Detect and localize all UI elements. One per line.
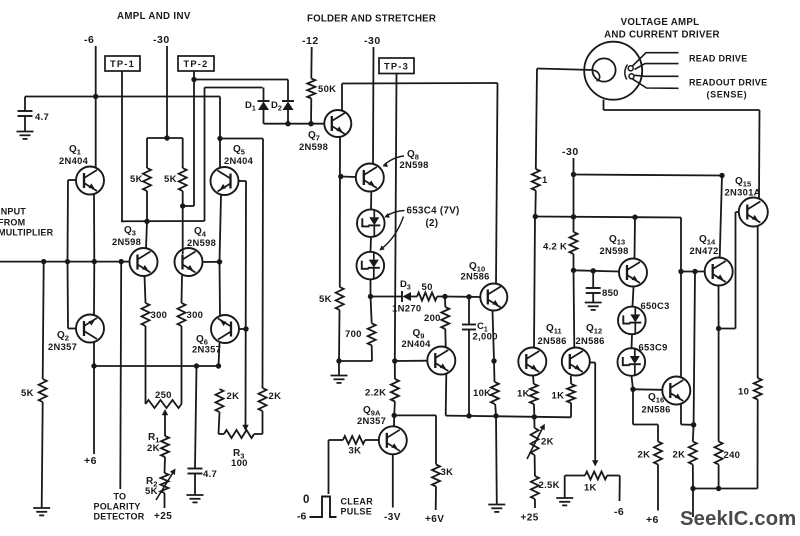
wire -30 stem (573, 158, 575, 175)
resistor 2K second x263 (259, 388, 267, 411)
wire 2K to +6 (657, 465, 659, 511)
svg-text:PULSE: PULSE (341, 507, 373, 517)
svg-text:1K: 1K (517, 389, 530, 400)
node 4.2K bottom / Q12 collector / Q13 base (571, 268, 576, 273)
capacitor C1 2000 (468, 297, 470, 324)
svg-text:2N472: 2N472 (690, 245, 719, 256)
svg-text:10: 10 (738, 387, 749, 398)
resistor 10K (491, 382, 499, 404)
svg-text:2N586: 2N586 (538, 335, 567, 346)
wire top bar joining 5K resistors (147, 137, 183, 139)
head lead line 3 (635, 75, 679, 76)
svg-text:4.7: 4.7 (35, 112, 49, 123)
node rail1 left junction (392, 413, 397, 418)
svg-text:653C4 (7V): 653C4 (7V) (407, 206, 460, 217)
head lead line 1 (632, 53, 679, 67)
resistor 2K right (692, 425, 695, 442)
wire R2 to +25 (164, 493, 166, 508)
wire Q5 emitter down (220, 195, 222, 262)
svg-text:+6: +6 (646, 514, 659, 526)
wire Q14 emitter down (718, 286, 720, 329)
wire Q7 emitter down to 5K (339, 137, 341, 287)
resistor 50 horizontal (417, 293, 437, 301)
wire -6 down to Q1 collector (95, 46, 97, 168)
wire Q15 emitter down to 10 (757, 226, 759, 378)
wire Q4 collector right to Q5 emitter node (203, 261, 220, 263)
transistor Q10 2N586 (480, 284, 507, 311)
svg-text:200: 200 (424, 313, 441, 324)
svg-text:2N598: 2N598 (187, 237, 216, 248)
resistor 4.2K (570, 232, 578, 254)
svg-text:2.2K: 2.2K (365, 388, 386, 399)
ground below 1K pot (556, 497, 573, 499)
svg-text:1K: 1K (584, 482, 597, 493)
wire rail y488.5 (693, 488, 758, 490)
wire between zeners (370, 237, 373, 252)
svg-text:100: 100 (231, 458, 248, 469)
node -6 junction on y96 rail (93, 94, 98, 99)
wire Q13 emitter down to 650C3 (633, 287, 634, 307)
transistor Q4 2N598 (175, 248, 203, 276)
head winding small circle 1 (628, 66, 633, 71)
node D2 junction (285, 121, 290, 126)
wire corner x220 down to Q5 collector (219, 97, 221, 169)
node Q14 emitter / Q15 base junction (716, 326, 721, 331)
wire Q7 collector up and right to Q10 collector (341, 84, 343, 111)
svg-text:300: 300 (151, 310, 168, 321)
wire Q11 collector up to y216 rail (534, 217, 535, 348)
potentiometer R3 100 horizontal (219, 433, 225, 435)
svg-text:700: 700 (345, 329, 362, 340)
wire zener chain bottom to node (370, 279, 372, 296)
svg-text:DETECTOR: DETECTOR (94, 512, 145, 522)
transistor Q12 2N586 (562, 348, 590, 376)
transistor Q14 2N472 (705, 258, 733, 286)
resistor 300 second (178, 303, 186, 326)
svg-text:5K: 5K (21, 388, 34, 399)
test point TP-2 box (178, 56, 214, 71)
resistor 10 (754, 378, 762, 400)
svg-text:250: 250 (155, 390, 172, 401)
svg-text:READ DRIVE: READ DRIVE (689, 54, 748, 64)
wire Q13 collector up (634, 217, 637, 258)
resistor 3K horizontal (343, 436, 365, 444)
svg-text:240: 240 (724, 450, 741, 461)
svg-text:2K: 2K (227, 391, 240, 402)
resistor 2.5K (531, 476, 539, 499)
node Q16 collector junction (678, 269, 683, 274)
wire zener bottom to Q16 base node (632, 376, 634, 390)
wire horizontal rail y=96.5 from input cap to corner x220 (25, 96, 220, 98)
node rail left junction (533, 214, 538, 219)
wire 240 to rail y488.5 (718, 465, 720, 489)
potentiometer 2K below rail2 (533, 417, 535, 428)
node x695 junction (692, 269, 697, 274)
svg-text:2N404: 2N404 (224, 155, 254, 166)
resistor 300 first (142, 303, 150, 326)
svg-text:3K: 3K (441, 467, 454, 478)
zener diode 653C4 second (357, 252, 385, 280)
wire Q3 emitter down to 300 ohm (145, 276, 146, 304)
svg-text:-6: -6 (614, 506, 624, 518)
wire y79.5 from TP-2 to D2 (194, 79, 288, 81)
head winding small circle 2 (629, 74, 634, 79)
node Q9 base / TP-3 / 2.2K junction (392, 358, 397, 363)
wire TP-1 stem down (121, 71, 123, 221)
wire TP-1 rail y221 (121, 220, 205, 222)
resistor 1 (532, 169, 540, 191)
wire node to C1 node (445, 296, 469, 298)
wire corner x204.5 up to y87.5 (204, 88, 206, 222)
svg-text:-3V: -3V (384, 512, 401, 523)
wire head bottom rail to right (604, 109, 760, 111)
wire Q6 emitter down to rail y366 (219, 343, 220, 366)
wire 700 bottom corner (371, 345, 373, 361)
svg-text:650C3: 650C3 (641, 300, 670, 311)
diode D1 (263, 110, 265, 124)
svg-text:TP-2: TP-2 (184, 59, 209, 69)
svg-text:READOUT DRIVE: READOUT DRIVE (689, 78, 767, 88)
wire Q5/Q6 base net down to R3 wiper arrow (245, 181, 248, 429)
node 5K1 bottom / Q3 collector (144, 219, 149, 224)
wire -12 stem (310, 47, 312, 79)
node input 5K tap (41, 259, 46, 264)
svg-text:FROM: FROM (0, 218, 25, 228)
wire 1K pot right to -6 (607, 475, 620, 477)
node Q2 emitter +6 junction (91, 363, 96, 368)
wire Q14 base rail y271.5 (681, 271, 705, 273)
resistor 5K second (182, 138, 184, 168)
transistor Q7 2N598 (324, 110, 351, 137)
node Q13 collector junction (632, 215, 637, 220)
svg-text:TP-1: TP-1 (110, 59, 135, 69)
wire Q1 base left (68, 179, 77, 181)
wire Q16 collector up to Q14 base rail (680, 272, 682, 378)
wire 5K bottom to ground node (338, 310, 341, 361)
svg-text:2N598: 2N598 (400, 159, 429, 170)
wire 50K down to Q7 base rail (310, 99, 312, 124)
svg-text:AND CURRENT DRIVER: AND CURRENT DRIVER (604, 30, 720, 41)
zener diode 650C3 (618, 307, 646, 335)
svg-text:2K: 2K (541, 437, 554, 448)
wire 200 bottom to Q9 collector (444, 329, 446, 347)
ground below 5K/700 (338, 361, 340, 376)
svg-text:2N301A: 2N301A (725, 187, 761, 198)
node 1K/2K pot junction (532, 414, 537, 419)
svg-text:50: 50 (422, 282, 433, 293)
svg-text:-30: -30 (562, 146, 579, 158)
wire 2.5K to +25 (534, 499, 536, 508)
node rail junction left (690, 486, 695, 491)
magnetic head core circle (592, 58, 615, 81)
svg-text:2N404: 2N404 (59, 155, 89, 166)
wire TP-2 to 5K2 bottom at y206 (183, 205, 194, 207)
svg-text:TO: TO (114, 492, 127, 502)
svg-text:(SENSE): (SENSE) (707, 90, 748, 100)
svg-text:2N598: 2N598 (600, 245, 629, 256)
svg-text:5K: 5K (130, 174, 143, 185)
wire 10K bottom to rail2 (494, 404, 497, 416)
svg-text:2N586: 2N586 (576, 335, 605, 346)
wire Q8 emitter down to zener (370, 192, 372, 210)
potentiometer R2 5K (161, 473, 169, 493)
wire Q2 collector up to bus (93, 262, 95, 315)
svg-text:4.2 K: 4.2 K (543, 242, 567, 253)
wire Q15 base left and down (736, 211, 739, 213)
node Q4 collector / Q5 emitter (217, 259, 222, 264)
resistor 3K vertical (432, 465, 440, 487)
magnetic head outer circle (584, 42, 642, 100)
transistor Q15 2N301A (739, 198, 768, 227)
wire -30 stem down to 5K top bar (166, 46, 168, 138)
node TP-2 tap to D2 wire (191, 77, 196, 82)
node Q16 base junction (630, 387, 635, 392)
transistor Q9 2N404 (427, 347, 455, 375)
zener diode 653C4 first (357, 209, 385, 237)
transistor Q13 2N598 (619, 259, 647, 287)
transistor Q5 2N404 (mirrored) (211, 167, 239, 195)
node junction y206 on 5K2 line (180, 203, 185, 208)
svg-text:5K: 5K (164, 174, 177, 185)
svg-text:3K: 3K (349, 446, 362, 457)
svg-text:2K: 2K (147, 443, 160, 454)
wire Q10 emitter down (493, 311, 495, 362)
transistor Q2 2N357 (76, 315, 104, 343)
node C1 tap (466, 294, 471, 299)
wire 10 down to rail (757, 400, 759, 489)
wire Q9 emitter down to rail2 (445, 374, 448, 415)
node Q1 emitter / Q2 collector tap (92, 259, 97, 264)
svg-text:2N357: 2N357 (48, 341, 77, 352)
transistor Q8 2N598 (356, 164, 384, 192)
wire y174.5 right to Q14 collector line (574, 175, 723, 176)
clear pulse waveform (310, 497, 337, 518)
node rail junction right (716, 486, 721, 491)
wire Q9A collector up to rail1 (393, 415, 395, 426)
wire 4.2K bottom to Q13 base node (573, 254, 575, 270)
wire 700 top to node (371, 297, 372, 324)
head lead line 2 (635, 64, 679, 70)
node polarity detector tap (119, 259, 124, 264)
wire corner down to Q14 collector (720, 176, 722, 258)
wire y87.5 right to D1 (205, 87, 263, 89)
wire Q8 base left (341, 176, 356, 179)
wire +6 stem (93, 366, 95, 454)
wire 1K corner to rail2 (570, 403, 572, 417)
wire Q12 emitter right and down to 1K pot wiper (590, 362, 595, 364)
svg-text:TP-3: TP-3 (384, 62, 409, 72)
svg-text:0: 0 (303, 494, 309, 506)
wire 3K to +6V (435, 487, 437, 511)
ground below 4.7 cap (187, 494, 204, 496)
svg-text:VOLTAGE AMPL: VOLTAGE AMPL (621, 17, 700, 28)
wire diode rail y123.7 to Q7 base (264, 123, 325, 125)
node 10K/ground junction (493, 413, 498, 418)
transistor Q9A 2N357 (379, 426, 407, 454)
wire Q10 emitter node to 10K (493, 361, 496, 382)
svg-text:-6: -6 (297, 511, 306, 523)
resistor 2K below Q6 (216, 389, 224, 412)
node Q6 base junction (243, 326, 248, 331)
node ground junction (336, 358, 341, 363)
resistor 200 (444, 297, 446, 308)
test point TP-1 box (105, 56, 140, 71)
wire Q16 base line (633, 388, 662, 391)
wire 50 to node (437, 296, 445, 298)
svg-text:+6: +6 (84, 455, 97, 467)
wire input bus y261.6 (0, 261, 130, 263)
wire -30 node down to 4.2K (573, 175, 575, 233)
svg-text:FOLDER AND STRETCHER: FOLDER AND STRETCHER (307, 14, 436, 25)
transistor Q16 2N586 (662, 377, 690, 405)
node Q16 emitter junction (691, 422, 696, 427)
svg-text:2N586: 2N586 (642, 404, 671, 415)
wire ground stem below rail2 (495, 416, 498, 505)
transistor Q1 2N404 (76, 167, 104, 195)
wire Q1 base down to bus (67, 180, 70, 262)
test point TP-3 box (379, 58, 414, 74)
svg-text:4.7: 4.7 (203, 469, 217, 480)
svg-text:5K: 5K (319, 294, 332, 305)
head lead line 4 (633, 79, 679, 88)
wire rail2 y416 (446, 416, 571, 418)
wire 1 bottom to rail y216.5 (534, 191, 537, 217)
svg-text:10K: 10K (473, 388, 491, 399)
svg-text:INPUT: INPUT (0, 207, 26, 217)
ground below 850 (585, 302, 602, 304)
wire node down and right to 2K (632, 389, 634, 424)
wire Q6 base right (239, 328, 246, 330)
resistor 1K below Q11 (530, 384, 538, 404)
svg-text:2N357: 2N357 (192, 344, 221, 355)
svg-text:2N357: 2N357 (357, 415, 386, 426)
svg-text:+25: +25 (154, 511, 172, 522)
potentiometer 1K horizontal bottom (585, 472, 607, 480)
svg-text:+6V: +6V (425, 514, 444, 525)
resistor 5K folder (339, 286, 341, 288)
wire TO POLARITY DETECTOR line (119, 262, 122, 489)
wire node to D3 (371, 296, 403, 298)
wire Q1 emitter down to bus (93, 194, 95, 262)
resistor 2.2K (394, 361, 396, 379)
svg-text:AMPL AND INV: AMPL AND INV (117, 11, 191, 22)
svg-text:2N598: 2N598 (299, 141, 328, 152)
node 50K junction (308, 121, 313, 126)
node C1 bottom junction (466, 413, 471, 418)
wire Q5 base right to x246 (238, 180, 246, 182)
wire junction down to 240 (718, 329, 720, 442)
wire Q11 emitter to 1K (532, 375, 535, 384)
wire head bottom stem (603, 100, 605, 110)
wire Q2 base from bus (67, 262, 70, 329)
resistor 50K (307, 79, 315, 99)
diode D2 (287, 110, 289, 124)
wire Q9 base left to TP-3 node (395, 360, 428, 362)
transistor Q6 2N357 (mirrored) (211, 315, 239, 343)
wire Q13 base line (574, 270, 619, 271)
head winding crescent (625, 65, 628, 80)
magnetic head core hook (592, 70, 599, 81)
svg-text:2K: 2K (269, 391, 282, 402)
svg-text:-12: -12 (302, 35, 319, 47)
svg-text:653C9: 653C9 (639, 342, 668, 353)
wire Q9A base left to 3K (365, 439, 379, 441)
wire head left down to resistor 1 (536, 69, 537, 170)
svg-text:SeekIC.com: SeekIC.com (680, 508, 796, 530)
svg-text:5K: 5K (145, 486, 158, 497)
zener diode 653C9 (618, 348, 646, 376)
svg-text:2.5K: 2.5K (539, 480, 560, 491)
node corner junction (719, 173, 724, 178)
node Q11 base tap (491, 358, 496, 363)
ground below 5K (33, 507, 50, 509)
wire Q4 emitter down to 300 ohm (181, 276, 184, 304)
svg-text:1N270: 1N270 (392, 304, 422, 315)
resistor 5K first (146, 138, 148, 168)
wire Q2 emitter down to rail y366 (93, 343, 95, 367)
potentiometer 250 horizontal (146, 400, 182, 408)
svg-text:2N586: 2N586 (461, 271, 490, 282)
wire 1K to rail2 (533, 404, 535, 417)
svg-text:(2): (2) (426, 218, 439, 229)
svg-text:300: 300 (187, 310, 204, 321)
node 700 / D3 junction (368, 294, 373, 299)
svg-text:-30: -30 (153, 34, 170, 46)
wire Q12 collector up to 4.2K node (573, 270, 576, 347)
wire down to Q15 collector (758, 110, 761, 199)
wire down to bottom edge (692, 489, 694, 518)
resistor R1 2K (161, 436, 169, 457)
wire 2K to 2.5K (534, 455, 536, 476)
diode D3 1N270 (403, 292, 412, 301)
resistor 240 (715, 442, 723, 465)
ground below rail2 (488, 504, 505, 506)
node -30 junction (164, 135, 169, 140)
svg-text:2N598: 2N598 (112, 236, 141, 247)
node Q1/Q2 base tap (65, 259, 70, 264)
wire rail corner down to Q14 base rail (680, 218, 682, 272)
transistor Q11 2N586 (518, 348, 546, 376)
resistor 700 (368, 323, 376, 345)
svg-text:MULTIPLIER: MULTIPLIER (0, 228, 54, 238)
annotation arrow to first zener (386, 211, 405, 217)
svg-text:-30: -30 (364, 35, 381, 47)
svg-text:50K: 50K (318, 84, 336, 95)
wire Q12 1K resistor (570, 376, 572, 384)
resistor 5K to ground lower-left (43, 262, 44, 379)
node Q6 emitter junction (216, 363, 221, 368)
annotation arrow to second zener (381, 217, 404, 250)
wire -30 down to Q8 collector (372, 47, 375, 164)
wire Q5 node down to Q6 collector (219, 262, 222, 315)
wire between zeners (631, 334, 634, 348)
resistor 2K left (654, 442, 662, 465)
wire rail1 y415.4 (394, 414, 436, 416)
wire 5K2 bottom down to Q4 base (182, 191, 184, 254)
capacitor 4.7 input top-left (24, 97, 26, 112)
node 4.2K top junction (571, 214, 576, 219)
node 850 cap tap (591, 268, 596, 273)
svg-text:850: 850 (602, 288, 619, 299)
node 200 tap (442, 294, 447, 299)
wire TP-2 stem down (193, 71, 195, 206)
svg-text:CLEAR: CLEAR (341, 497, 374, 507)
wire TP-3 stem down to Q9 base node (395, 74, 397, 362)
wire x695 down to Q16 emitter node (694, 272, 695, 425)
wire Q9A emitter to -3V (392, 455, 394, 508)
node 4.7 cap tap (194, 363, 199, 368)
svg-text:1: 1 (542, 175, 548, 186)
